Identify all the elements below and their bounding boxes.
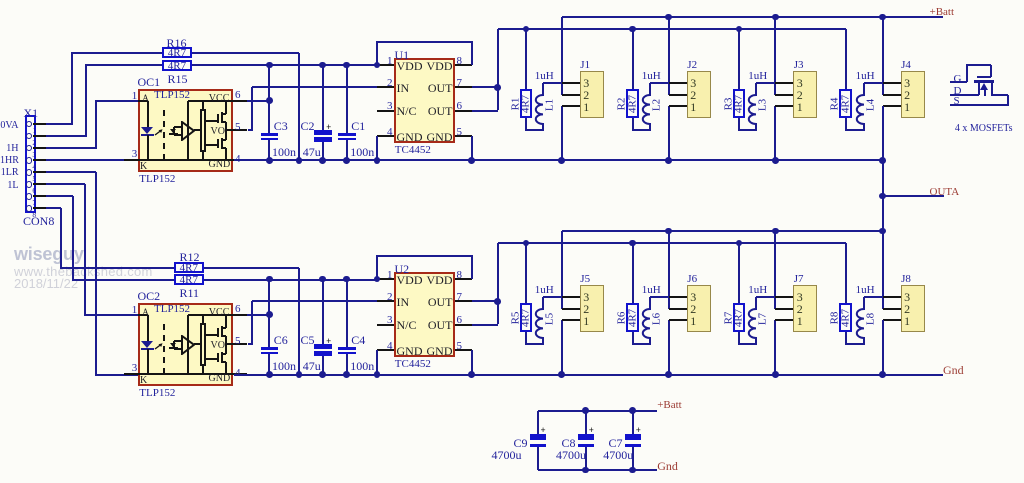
label TC4452 below U2: [395, 359, 431, 370]
wire J5 pin2 drop from rail: [561, 231, 563, 309]
capacitor C5: [0, 0, 1, 1]
wire J1 pin1 to rail: [561, 106, 563, 160]
resistor R6: [0, 0, 1, 1]
label +Batt bank: [657, 400, 682, 411]
label +Batt: [930, 7, 955, 18]
label J8: [901, 274, 911, 285]
node 1LR: [0, 168, 19, 178]
wire J4 pin2 drop from rail: [882, 17, 884, 95]
wire R1 L1 bottom link: [0, 0, 1, 1]
wire R3 top feed: [738, 29, 740, 89]
label C6: [274, 334, 288, 346]
wire R16 right to GND rail: [0, 0, 1, 1]
capacitor C7: [0, 0, 1, 1]
connector J5 pin stubs: [0, 0, 1, 1]
wire L5 to J5 pin3: [543, 296, 563, 298]
connector J2 pin stubs: [0, 0, 1, 1]
wire L6 to J6 pin3: [650, 296, 670, 298]
wire R15 to U1 VDD: [192, 64, 377, 66]
wire R6 top feed: [632, 243, 634, 303]
connector J6: [0, 0, 1, 1]
wire R1 top feed: [525, 29, 527, 89]
connector J7: [0, 0, 1, 1]
label R1: [510, 97, 521, 110]
wire +Batt rail of capacitor bank: [538, 410, 657, 412]
label L7 value 1uH: [748, 285, 767, 296]
label TLP152 below OC2: [139, 388, 175, 399]
label R2: [617, 97, 628, 110]
connector J8 pin stubs: [0, 0, 1, 1]
wire OC1 VCC to C3: [0, 0, 1, 1]
wire L7 to J7 pin3: [756, 296, 776, 298]
op-amp / optocoupler OC1 (TLP152): [0, 0, 1, 1]
label C1: [351, 120, 365, 132]
wire J3 pin1 to rail: [774, 106, 776, 160]
connector J3 pin stubs: [0, 0, 1, 1]
node 1HR: [0, 156, 19, 166]
wire X1 pin6 to OC2 anode: [0, 0, 1, 1]
label D: [954, 86, 962, 97]
label C4: [351, 334, 365, 346]
label Gnd bank: [657, 460, 678, 472]
wire X1 pin8 to R12: [0, 0, 1, 1]
wire OUTA stub: [883, 195, 944, 197]
label L8 value 1uH: [856, 285, 875, 296]
connector X1 (CON8): [0, 0, 1, 1]
wire Gnd rail of capacitor bank: [538, 469, 657, 471]
wire J6 pin2 drop from rail: [668, 231, 670, 309]
label L5 value 1uH: [535, 285, 554, 296]
wire U2 GND loop pins 4-5: [0, 0, 1, 1]
label C7: [609, 437, 623, 449]
label C6 value 100n: [272, 360, 296, 372]
resistor R4: [0, 0, 1, 1]
wire J8 pin1 to rail: [882, 320, 884, 374]
label C3 value 100n: [272, 146, 296, 158]
wire R2 L2 bottom link: [0, 0, 1, 1]
X1 pin stubs: [0, 0, 1, 1]
label S: [954, 96, 960, 107]
wire J1 pin2 drop from rail: [561, 17, 563, 95]
label OC2: [138, 290, 161, 302]
label C7 value 4700u: [603, 449, 633, 461]
wire J8 pin2 drop from rail: [882, 231, 884, 309]
node 1H: [0, 144, 19, 154]
label J1: [580, 60, 590, 71]
capacitor C9: [0, 0, 1, 1]
label C4 value 100n: [350, 360, 374, 372]
label R4: [830, 97, 841, 110]
label L8: [865, 313, 876, 325]
wire OC1 VO to U1 IN: [0, 0, 1, 1]
label R15: [168, 73, 188, 85]
junction dots capacitor bank: [0, 0, 1, 1]
wire R8 top feed: [845, 243, 847, 303]
inductor L5: [542, 297, 544, 310]
wire J2 pin1 to rail: [668, 106, 670, 160]
wire U2 VDD loop pins 1-8: [0, 0, 1, 1]
wire X1 pin3 to OC1 anode: [0, 0, 1, 1]
wire U1 GND loop pins 4-5: [0, 0, 1, 1]
connector J6 pin stubs: [0, 0, 1, 1]
resistor R3: [0, 0, 1, 1]
wire J7 pin1 to rail: [774, 320, 776, 374]
resistor R15: [0, 0, 1, 1]
transistor 4 x MOSFETs symbol: [0, 0, 1, 1]
label L7: [758, 313, 769, 325]
label 4 x MOSFETs: [955, 124, 1013, 134]
wire X1 pin7 to R11: [0, 0, 1, 1]
capacitor C2: [0, 0, 1, 1]
capacitor C1: [0, 0, 1, 1]
label C3: [274, 120, 288, 132]
label C1 value 100n: [350, 146, 374, 158]
connector J2: [0, 0, 1, 1]
label R11: [180, 287, 200, 299]
label TC4452 below U1: [395, 145, 431, 156]
label U1: [395, 49, 410, 61]
inductor L3: [755, 83, 757, 96]
wire U2 OUT pins 7-6 to gate rail: [0, 0, 1, 1]
connector J1 pin stubs: [0, 0, 1, 1]
inductor L7: [755, 297, 757, 310]
label C8 value 4700u: [556, 449, 586, 461]
op-amp driver U1 (TC4452): [0, 0, 1, 1]
wire J3 pin2 drop from rail: [774, 17, 776, 95]
label J4: [901, 60, 911, 71]
label R16: [167, 37, 187, 49]
inductor L2: [649, 83, 651, 96]
capacitor C4: [0, 0, 1, 1]
wire OC2 VCC to C6: [0, 0, 1, 1]
resistor R12: [0, 0, 1, 1]
connector J4: [0, 0, 1, 1]
label C5 value 47u: [303, 360, 321, 372]
wire L3 to J3 pin3: [756, 82, 776, 84]
label L4 value 1uH: [856, 71, 875, 82]
wire OUTA rail (lower): [562, 230, 883, 232]
label J5: [580, 274, 590, 285]
label L3 value 1uH: [748, 71, 767, 82]
wire J4 pin1 to rail: [882, 106, 884, 160]
label J6: [687, 274, 697, 285]
wire GND rail of high-side section: [234, 159, 883, 161]
connector J8: [0, 0, 1, 1]
inductor L4: [863, 83, 865, 96]
wire Gnd rail of low-side section: [234, 374, 943, 376]
wire R4 L4 bottom link: [0, 0, 1, 1]
label X1: [24, 107, 39, 119]
label L1: [544, 99, 555, 111]
optocoupler OC2 (TLP152): [0, 0, 1, 1]
wire R12 right to Gnd rail: [0, 0, 1, 1]
label R5: [510, 311, 521, 324]
label L1 value 1uH: [535, 71, 554, 82]
label C9 value 4700u: [492, 449, 522, 461]
connector J3: [0, 0, 1, 1]
label L4: [865, 99, 876, 111]
label L6 value 1uH: [642, 285, 661, 296]
label R7: [723, 311, 734, 324]
wire gate drive rail (lower): [498, 242, 846, 244]
resistor R1: [0, 0, 1, 1]
wire R2 top feed: [632, 29, 634, 89]
wire X1 pin2 to R15: [0, 0, 1, 1]
wire X1 pin5 1LR to Gnd rail: [0, 0, 1, 1]
resistor R2: [0, 0, 1, 1]
wire R8 L8 bottom link: [0, 0, 1, 1]
capacitor C6: [0, 0, 1, 1]
resistor R11: [0, 0, 1, 1]
label J7: [794, 274, 804, 285]
driver U2 (TC4452): [0, 0, 1, 1]
wire R6 L6 bottom link: [0, 0, 1, 1]
node OUTA: [930, 187, 960, 198]
wire R7 L7 bottom link: [0, 0, 1, 1]
inductor L1: [542, 83, 544, 96]
wire L2 to J2 pin3: [650, 82, 670, 84]
label G: [954, 74, 962, 85]
label J2: [687, 60, 697, 71]
wire L1 to J1 pin3: [543, 82, 563, 84]
wire R11 to U2 VDD: [204, 279, 377, 281]
wire gate drive rail (top): [498, 28, 846, 30]
wire OC2 VO to U2 IN: [0, 0, 1, 1]
capacitor C3: [0, 0, 1, 1]
connector J1: [0, 0, 1, 1]
connector J4 pin stubs: [0, 0, 1, 1]
wire OUTA vertical: [882, 106, 884, 308]
label L5: [544, 313, 555, 325]
label L6: [651, 313, 662, 325]
wire L8 to J8 pin3: [864, 296, 884, 298]
connector J7 pin stubs: [0, 0, 1, 1]
label C8: [562, 437, 576, 449]
label R12: [180, 251, 200, 263]
wire R5 top feed: [525, 243, 527, 303]
wire U1 OUT pins 7-6 to gate rail: [0, 0, 1, 1]
junction dots OUTA: [0, 0, 1, 1]
label C2: [301, 120, 315, 132]
wire U1 VDD loop pins 1-8: [0, 0, 1, 1]
label TLP152 below OC1: [139, 174, 175, 185]
label U2: [395, 263, 410, 275]
wire R7 top feed: [738, 243, 740, 303]
junction dots top section: [0, 0, 1, 1]
label R3: [723, 97, 734, 110]
resistor R8: [0, 0, 1, 1]
wire +Batt rail: [562, 16, 943, 18]
resistor R16: [0, 0, 1, 1]
label C2 value 47u: [303, 146, 321, 158]
junction dots lower section: [0, 0, 1, 1]
inductor L6: [649, 297, 651, 310]
label R8: [830, 311, 841, 324]
label R6: [617, 311, 628, 324]
node 0VA: [0, 121, 19, 131]
node 1L: [0, 181, 19, 191]
wire R5 L5 bottom link: [0, 0, 1, 1]
label J3: [794, 60, 804, 71]
label C5: [301, 334, 315, 346]
wire X1 pin4 1HR rail to OC1 K: [46, 159, 138, 161]
capacitor C8: [0, 0, 1, 1]
wire J8 pin1 to Gnd rail: [882, 320, 884, 374]
wire R3 L3 bottom link: [0, 0, 1, 1]
watermark: [14, 245, 84, 263]
resistor R5: [0, 0, 1, 1]
label CON8: [23, 215, 54, 227]
wire R4 top feed: [845, 29, 847, 89]
label L2 value 1uH: [642, 71, 661, 82]
wire L4 to J4 pin3: [864, 82, 884, 84]
connector J5: [0, 0, 1, 1]
label C9: [514, 437, 528, 449]
wire J7 pin2 drop from rail: [774, 231, 776, 309]
node Gnd: [943, 364, 964, 376]
label OC1: [138, 76, 161, 88]
label L2: [651, 99, 662, 111]
inductor L8: [863, 297, 865, 310]
resistor R7: [0, 0, 1, 1]
wire J5 pin1 to rail: [561, 320, 563, 374]
wire J6 pin1 to rail: [668, 320, 670, 374]
wire J2 pin2 drop from rail: [668, 17, 670, 95]
wire X1 pin1 to R16: [0, 0, 1, 1]
label L3: [758, 99, 769, 111]
